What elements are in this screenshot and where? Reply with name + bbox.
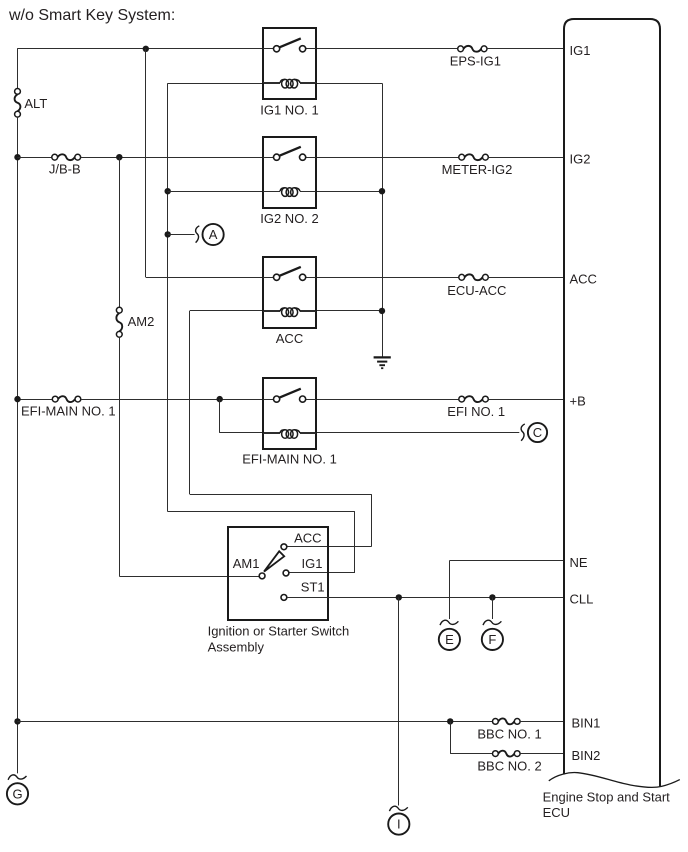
svg-text:E: E xyxy=(445,632,454,647)
wire - leftmost vertical BIN1 row to connector G xyxy=(17,721,19,773)
label Ignition or Starter Switch Assembly xyxy=(208,623,350,654)
wire - BIN1 row xyxy=(18,721,493,723)
svg-text:I: I xyxy=(397,817,401,832)
contact ACC xyxy=(281,544,287,550)
wire - IG2 coil row right xyxy=(300,191,382,193)
relay IG2 NO. 2 xyxy=(263,137,316,208)
pin BIN2 xyxy=(572,748,601,763)
svg-text:ECU: ECU xyxy=(543,805,570,820)
svg-text:BBC NO. 1: BBC NO. 1 xyxy=(477,726,541,741)
switch lever AM1 xyxy=(264,551,284,571)
svg-text:Assembly: Assembly xyxy=(208,639,265,654)
wire - EFI NO.1 to ECU +B pin xyxy=(488,399,564,401)
fuse J/B-B xyxy=(52,154,81,160)
svg-text:BIN1: BIN1 xyxy=(572,716,601,731)
node - junction BIN1 to BIN2 drop xyxy=(447,718,453,724)
fuse METER-IG2 xyxy=(459,154,488,160)
relay ACC xyxy=(263,257,316,328)
connector F xyxy=(482,629,503,650)
label EFI-MAIN NO. 1 relay xyxy=(242,451,337,466)
wire - J/B-B row left stub xyxy=(18,157,52,159)
wire - leftmost vertical (battery bus) upper segment xyxy=(17,48,19,88)
fusible link ALT xyxy=(15,89,21,118)
wire - battery feed top horizontal xyxy=(18,48,264,50)
squiggle before connector C xyxy=(521,424,525,441)
wire - IG1 relay to EPS-IG1 fuse xyxy=(316,48,458,50)
pin NE xyxy=(570,555,588,570)
svg-text:IG1: IG1 xyxy=(570,43,591,58)
label EPS-IG1 xyxy=(450,54,501,69)
label J/B-B xyxy=(49,162,81,177)
wire - AM2 vertical lower to AM1 row xyxy=(119,337,259,576)
wire - AM2 vertical upper xyxy=(119,157,121,307)
node - junction ST1 row to connector I xyxy=(396,594,402,600)
wire - EPS-IG1 to ECU IG1 pin xyxy=(487,48,565,50)
connector G xyxy=(7,783,28,804)
svg-text:EFI-MAIN NO. 1: EFI-MAIN NO. 1 xyxy=(21,403,116,418)
svg-text:EFI NO. 1: EFI NO. 1 xyxy=(447,404,505,419)
wire - BIN2 drop and row xyxy=(450,721,492,753)
label ST1 contact xyxy=(301,580,325,595)
label Engine Stop and Start ECU xyxy=(543,789,671,820)
svg-text:METER-IG2: METER-IG2 xyxy=(442,162,513,177)
wire - IG2 relay to METER-IG2 fuse xyxy=(316,157,459,159)
fuse EPS-IG1 xyxy=(458,46,487,52)
title w/o Smart Key System xyxy=(8,7,175,24)
wire - ACC coil row right xyxy=(300,310,382,312)
wire - vertical to connector E xyxy=(449,561,451,619)
wire - J/B-B row to IG2 relay xyxy=(81,157,263,159)
contact IG1 xyxy=(283,570,289,576)
node - junction +B row to coil drop xyxy=(217,396,223,402)
wire - ACC relay to ECU-ACC fuse xyxy=(316,277,459,279)
svg-text:IG1: IG1 xyxy=(302,556,323,571)
squiggle above connector F xyxy=(483,620,501,625)
wire - +B row to EFI-MAIN relay xyxy=(81,399,263,401)
svg-text:ST1: ST1 xyxy=(301,580,325,595)
label IG1 contact xyxy=(302,556,323,571)
wire - ACC coil row left xyxy=(190,310,280,312)
squiggle above connector I xyxy=(389,806,407,811)
node - junction left bus at +B row xyxy=(14,396,20,402)
connector C xyxy=(528,423,547,442)
fuse BBC NO. 2 xyxy=(493,751,521,757)
svg-text:+B: +B xyxy=(570,393,586,408)
svg-text:EFI-MAIN NO. 1: EFI-MAIN NO. 1 xyxy=(242,451,337,466)
fuse BBC NO. 1 xyxy=(493,718,521,724)
wire - vertical to connector I xyxy=(398,597,400,805)
label IG1 NO. 1 xyxy=(260,102,319,117)
wire - IG1 coil row right xyxy=(300,83,382,85)
wire - EFI-MAIN coil row to connector C xyxy=(300,432,519,434)
wire - EFI-MAIN relay to EFI NO.1 fuse xyxy=(316,399,459,401)
pin CLL xyxy=(570,592,594,607)
connector E xyxy=(439,629,460,650)
relay EFI-MAIN NO. 1 xyxy=(263,378,316,449)
contact AM1 xyxy=(259,573,265,579)
squiggle above connector G xyxy=(8,775,26,780)
svg-text:BIN2: BIN2 xyxy=(572,748,601,763)
svg-text:Engine Stop and Start: Engine Stop and Start xyxy=(543,789,671,804)
svg-text:A: A xyxy=(209,227,218,242)
svg-text:IG1 NO. 1: IG1 NO. 1 xyxy=(260,102,319,117)
svg-text:AM2: AM2 xyxy=(128,314,155,329)
wire - vertical drop to ACC relay switch xyxy=(146,49,264,278)
node - junction ST1 row to connector F xyxy=(489,594,495,600)
label IG2 NO. 2 xyxy=(260,211,319,226)
wire - BBC NO.1 to ECU BIN1 xyxy=(520,721,564,723)
svg-text:ACC: ACC xyxy=(294,530,321,545)
svg-text:ACC: ACC xyxy=(276,331,303,346)
label BBC NO. 1 xyxy=(477,726,541,741)
pin ACC xyxy=(570,272,597,287)
svg-text:AM1: AM1 xyxy=(233,556,260,571)
node - junction IG2 coil left xyxy=(165,188,171,194)
label METER-IG2 xyxy=(442,162,513,177)
label BBC NO. 2 xyxy=(477,759,541,774)
wire - IG1 relay coil left elbow down to ignition switch IG1 xyxy=(168,83,355,573)
wire - IG2 coil row left xyxy=(168,191,280,193)
svg-text:w/o Smart Key System:: w/o Smart Key System: xyxy=(8,7,175,24)
pin BIN1 xyxy=(572,716,601,731)
node - junction J/B-B row to AM2 drop xyxy=(116,154,122,160)
wire - ECU-ACC to ECU ACC pin xyxy=(488,277,564,279)
node - junction left bus at J/B-B row xyxy=(14,154,20,160)
wire - drop to EFI-MAIN relay coil xyxy=(220,399,281,433)
wire - ACC coil row left elbow down to ignition switch ACC xyxy=(190,311,372,547)
contact ST1 xyxy=(281,595,287,601)
label AM1 xyxy=(233,556,260,571)
ECU Engine Stop and Start box xyxy=(549,19,680,787)
wire - leftmost vertical J/B-B row to +B row xyxy=(17,157,19,399)
fuse ECU-ACC xyxy=(459,274,488,280)
svg-text:Ignition or Starter Switch: Ignition or Starter Switch xyxy=(208,623,350,638)
wire - coil ground bus vertical xyxy=(382,83,384,357)
fuse EFI-MAIN NO. 1 (left) xyxy=(52,396,81,402)
fuse EFI NO. 1 xyxy=(459,396,488,402)
wire - IG1 coil row left xyxy=(168,83,280,85)
svg-text:ACC: ACC xyxy=(570,272,597,287)
svg-text:G: G xyxy=(12,786,22,801)
pin IG2 xyxy=(570,151,591,166)
connector A xyxy=(203,224,224,245)
svg-text:IG2 NO. 2: IG2 NO. 2 xyxy=(260,211,319,226)
wire - METER-IG2 to ECU IG2 pin xyxy=(488,157,564,159)
label ECU-ACC xyxy=(447,283,506,298)
wire - BBC NO.2 to ECU BIN2 xyxy=(520,753,564,755)
svg-text:ECU-ACC: ECU-ACC xyxy=(447,283,506,298)
svg-text:J/B-B: J/B-B xyxy=(49,162,81,177)
svg-text:CLL: CLL xyxy=(570,592,594,607)
relay IG1 NO. 1 xyxy=(263,28,316,99)
svg-text:F: F xyxy=(488,632,496,647)
node - junction connector A tap xyxy=(165,231,171,237)
wire - NE row from ECU xyxy=(449,560,564,562)
svg-text:EPS-IG1: EPS-IG1 xyxy=(450,54,501,69)
pin IG1 xyxy=(570,43,591,58)
pin +B xyxy=(570,393,586,408)
label ACC contact xyxy=(294,530,321,545)
label AM2 xyxy=(128,314,155,329)
wire - vertical to connector F xyxy=(492,597,494,619)
wire - tap to connector A xyxy=(168,234,195,236)
node - junction ACC coil right to ground xyxy=(379,308,385,314)
ground symbol xyxy=(374,357,391,368)
ignition or starter switch assembly box xyxy=(228,527,328,620)
connector I xyxy=(388,814,409,835)
wire - +B row left stub xyxy=(18,399,53,401)
node - junction IG2 coil right xyxy=(379,188,385,194)
wire - leftmost vertical +B row to BIN1 row xyxy=(17,399,19,721)
fusible link AM2 xyxy=(116,307,122,337)
squiggle above connector E xyxy=(440,620,458,625)
label ALT xyxy=(24,96,47,111)
label EFI-MAIN NO. 1 fuse xyxy=(21,403,116,418)
label ACC relay xyxy=(276,331,303,346)
squiggle before connector A xyxy=(196,226,200,243)
node - junction left bus at BIN1 row xyxy=(14,718,20,724)
label EFI NO. 1 xyxy=(447,404,505,419)
svg-text:IG2: IG2 xyxy=(570,151,591,166)
wire - ST1 row to ECU CLL pin xyxy=(287,597,565,599)
svg-text:ALT: ALT xyxy=(24,96,47,111)
node - junction top feed to ACC drop xyxy=(143,46,149,52)
wire - leftmost vertical below ALT to J/B-B row xyxy=(17,117,19,157)
svg-text:NE: NE xyxy=(570,555,588,570)
svg-text:BBC NO. 2: BBC NO. 2 xyxy=(477,759,541,774)
svg-text:C: C xyxy=(533,425,542,440)
